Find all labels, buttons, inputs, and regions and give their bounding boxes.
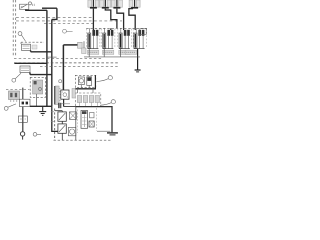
wire: dashed row y=20.9	[16, 20, 122, 22]
wire: coil unit dashed bounds	[101, 29, 115, 49]
wire: fuse F1 output to bus B2	[31, 50, 52, 51]
resistor R5 (tall component in U5)	[81, 111, 88, 129]
fuse F2 (left, lower)	[20, 66, 30, 73]
injector connector J3 pins	[111, 0, 122, 9]
wire: thin rail y=56.9	[84, 56, 140, 58]
injector connector J4 pins	[129, 0, 140, 9]
node 45 (circled connector right lower)	[111, 100, 115, 104]
pin label k2	[51, 121, 54, 123]
node 15 (circled connector, left)	[18, 32, 22, 36]
wire: bus B3 vertical x=63.4	[62, 45, 64, 90]
valve Y1 (small crossed box in U5)	[89, 121, 94, 127]
fuse F1 (left, upper)	[21, 42, 44, 50]
wire: bus B2 lower continues to switch pack	[52, 106, 58, 131]
wire: leader node 44	[97, 79, 109, 82]
wire: stub below ring	[22, 136, 24, 140]
wire: drops from rail into X20	[78, 89, 94, 93]
capacitor C2 (small box in U5)	[90, 113, 95, 118]
wire: coil unit dashed bounds	[86, 29, 100, 49]
connector X3 (gray boxlet)	[78, 42, 83, 48]
wire: J2 lead down with jogs	[105, 9, 117, 29]
sensor X (crossed box upper)	[69, 112, 76, 119]
connector X9 (small box top right of T4)	[140, 29, 146, 35]
node 8 (small circled dot)	[59, 80, 62, 83]
wire: dashed internal verticals U5	[78, 108, 97, 133]
wire: dashed boundary vertical left B	[15, 0, 17, 57]
connector row X20 (dashed box lower)	[75, 93, 101, 106]
injector connector J2 pins	[100, 0, 111, 9]
connector X4 (gray boxlet below X3)	[82, 48, 86, 54]
ground G1	[39, 106, 46, 115]
wire: J1 lead down	[92, 9, 94, 29]
distributor D1 (dashed box upper)	[75, 75, 96, 87]
coil T2	[102, 28, 113, 57]
relay K1 (dashed box, mid-left)	[30, 77, 45, 97]
wire: dashed row y=66.6	[40, 66, 118, 68]
wire: thick feed upper to bus B2	[42, 7, 57, 9]
pin label k1	[51, 111, 54, 113]
wire: leader node 23	[66, 31, 72, 33]
connector X5 (small box)	[18, 116, 27, 122]
wire: bus B2 upper vertical x=56.9 with jog	[52, 8, 57, 19]
wire: link SW1-SW2	[61, 121, 63, 124]
wire: K1 pin down	[36, 94, 38, 106]
wire: link U2 to ECU top	[64, 106, 76, 108]
coil T4	[125, 28, 144, 54]
connector pins (gray, left of X20)	[72, 89, 75, 99]
sensor B1 (dark contacts box)	[20, 99, 31, 106]
ECU U5 (big box bottom middle)	[76, 107, 118, 140]
switch S1 (ignition switch, top left)	[20, 4, 29, 9]
wire: dashed boundary vertical x=54.7 lower	[54, 109, 56, 141]
label 1B at S1	[33, 4, 35, 6]
connector ring (inline connector symbol)	[20, 132, 24, 136]
wire: J3 lead down with jog	[117, 9, 124, 29]
wire: dashed bottom edge	[54, 139, 113, 141]
wire: dashed row y=62.9	[14, 62, 118, 64]
wire: bus B2 vertical x=51.8	[51, 19, 53, 106]
wire: leader node 31 to F2	[15, 73, 21, 79]
wire: plug top lead	[88, 28, 90, 33]
connector strip X10 (gray, center)	[55, 86, 61, 105]
wire: coil unit dashed bounds	[133, 29, 147, 49]
wire: thick feed y=63.3 to bus B1	[14, 62, 47, 64]
wire: thin y=103.8	[62, 103, 71, 105]
wire: feed above SW1	[55, 111, 63, 112]
node 54 (circled connector w/ leader)	[33, 133, 37, 137]
wire: J4 lead down with jogs	[129, 9, 135, 29]
wire: dashed row y=23.7	[44, 23, 93, 25]
wire: thin internal rail y=131.2	[97, 130, 110, 132]
wire: vertical right edge of D1	[94, 75, 96, 89]
wire: below SW2	[61, 133, 63, 140]
node 31 (circled connector)	[12, 78, 16, 82]
node 52 (circled connector bottom-left)	[4, 107, 8, 111]
wire: thick ground rail y=106.3	[30, 105, 52, 107]
wire: dashed row y=58.3	[14, 57, 103, 59]
node 44 (circled connector right upper)	[108, 76, 112, 80]
wire: thick feed from S1 to bus B1	[26, 8, 47, 11]
wire: dashed boundary vertical left A	[12, 0, 14, 57]
wire: coil unit dashed bounds	[118, 29, 132, 49]
injector connector J1 pins	[88, 0, 99, 9]
wire: plug top lead	[120, 28, 122, 33]
wire: thick coil feed y=44.9	[63, 44, 77, 46]
node 30 (circled terminal at switch)	[29, 2, 32, 5]
wire: leader node 52	[8, 104, 16, 107]
wire: thick rail y=88.8	[75, 88, 96, 90]
wire: bus B1 vertical x=46.9	[46, 10, 48, 106]
wire: thin vertical x=84	[83, 41, 85, 48]
wire: thin link y=57.1 between buses	[47, 56, 57, 58]
wire: T4 ground lead	[137, 49, 139, 70]
wire: dashed row y=17.6	[16, 17, 93, 19]
wire: leader from node 15	[21, 35, 25, 42]
wire: leader node 54	[37, 133, 41, 135]
wire: drop to sensor B	[22, 88, 24, 100]
wire: thin drops in D1	[81, 85, 89, 89]
wire: dashed row y=89.6 bottom-left	[6, 89, 30, 91]
wire: leader node 45	[100, 103, 111, 106]
wire: sensor B1 down to connector	[22, 107, 24, 132]
ignition module U2 (box at bus B3 end)	[61, 90, 69, 99]
wire: fuse F2 output to bus B2	[30, 73, 52, 75]
switch pack: contact SW2	[58, 124, 66, 133]
wire: dashed row y=28.3 (coil tops)	[86, 27, 147, 29]
relay K2 (gray, bottom-left)	[9, 91, 20, 102]
ground G2	[135, 70, 141, 72]
coil T1	[87, 28, 98, 57]
wire: plug top lead	[135, 28, 137, 33]
terminal bars (dark pair)	[58, 103, 59, 108]
node 23 (circled connector near bus B3)	[63, 29, 67, 33]
wire: U2 output down	[63, 99, 65, 106]
motor M (crossed box lower)	[68, 127, 75, 135]
wire: plug top lead	[103, 28, 105, 33]
switch pack: contact SW1	[58, 112, 66, 121]
coil T3	[119, 28, 130, 57]
